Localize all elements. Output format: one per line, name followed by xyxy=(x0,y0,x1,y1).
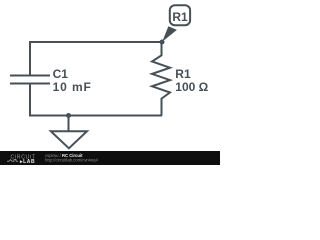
capacitor C1 plates xyxy=(10,76,50,84)
svg-text:R1: R1 xyxy=(172,10,188,24)
svg-text:100 Ω: 100 Ω xyxy=(175,80,208,94)
wire: ground stub xyxy=(68,116,70,132)
footer bar xyxy=(0,151,220,165)
svg-text:http://circuitlab.com/cvr4wq4: http://circuitlab.com/cvr4wq4 xyxy=(45,157,98,162)
junction dot at R1 top node xyxy=(160,40,165,45)
ground symbol xyxy=(51,131,87,148)
wire: C1 bottom lead (vertical) xyxy=(29,85,31,117)
svg-text:10 mF: 10 mF xyxy=(53,80,92,94)
resistor R1 (zigzag with leads) xyxy=(152,42,170,116)
svg-text:C1: C1 xyxy=(53,67,69,81)
wire: top horizontal net C1 to R1 xyxy=(29,41,162,43)
CircuitLab logo: waveform + LAB xyxy=(7,159,35,165)
annotation flag box R1 xyxy=(170,5,190,25)
svg-text:▸LAB: ▸LAB xyxy=(19,159,35,165)
wire: bottom horizontal net xyxy=(29,115,162,117)
annotation flag tail (pointer to node) xyxy=(162,26,177,42)
junction dot at ground tap xyxy=(66,113,71,118)
wire: C1 top lead (vertical) xyxy=(29,42,31,75)
